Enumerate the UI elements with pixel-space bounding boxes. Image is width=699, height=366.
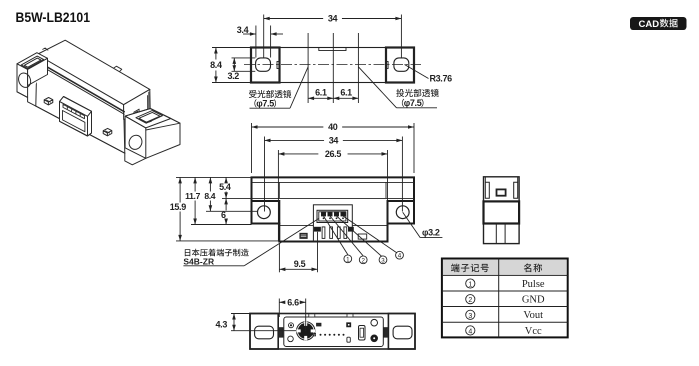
svg-text:2: 2 [361, 257, 365, 264]
svg-text:Vcc: Vcc [525, 326, 542, 337]
bottom tiny square [313, 333, 316, 336]
connector detail side slots [485, 177, 489, 198]
iso spine top face [37, 40, 150, 105]
iso bottom notch [125, 153, 146, 165]
iso end face seam [148, 92, 149, 111]
svg-text:CAD: CAD [639, 19, 660, 30]
dim 9.5 [278, 244, 280, 273]
callout 4 [396, 251, 404, 259]
front view outline [252, 177, 415, 241]
bottom right small square [347, 323, 351, 327]
svg-text:3.2: 3.2 [227, 71, 239, 81]
bottom view right lens [393, 326, 412, 339]
iso end face small rect [134, 109, 139, 116]
table row Vcc [466, 326, 475, 335]
svg-text:34: 34 [329, 136, 339, 146]
svg-text:8.4: 8.4 [204, 191, 215, 201]
isometric view [17, 40, 180, 165]
iso left block [17, 53, 48, 98]
svg-text:5.4: 5.4 [219, 182, 231, 192]
svg-text:15.9: 15.9 [170, 202, 186, 212]
dim 8.4 front [206, 210, 258, 212]
front view left ear box [252, 201, 280, 224]
iso connector pins [63, 104, 85, 118]
bottom right circle open [371, 319, 378, 326]
svg-text:4.3: 4.3 [216, 320, 228, 330]
table row GND [466, 295, 475, 304]
iso far top edge tab [114, 66, 122, 71]
front view right hole [396, 206, 409, 219]
iso small tab right [103, 128, 112, 135]
bottom right circle filled [371, 335, 378, 342]
svg-text:6: 6 [221, 210, 226, 220]
table header [451, 264, 489, 273]
connector detail center slot [497, 189, 506, 195]
dim 3.4 [255, 26, 257, 58]
svg-text:40: 40 [328, 122, 338, 132]
svg-text:34: 34 [328, 14, 338, 24]
front view block inner edges [278, 182, 280, 198]
connector front view [313, 205, 352, 242]
iso right block front circle [127, 133, 144, 151]
top view receiver lens [256, 58, 271, 71]
front view top parting line [252, 181, 415, 183]
dim 8.4 left [212, 47, 251, 49]
svg-text:Pulse: Pulse [522, 279, 545, 290]
dim 6.1 6.1 [308, 97, 333, 99]
iso connector recess [60, 97, 92, 137]
CAD data badge [630, 17, 687, 30]
svg-text:GND: GND [522, 295, 545, 306]
connector pin 2 [328, 212, 332, 216]
dim 34 top [263, 15, 265, 58]
bottom view left dark tab [278, 328, 283, 338]
svg-text:R3.76: R3.76 [430, 74, 453, 84]
svg-text:8.4: 8.4 [210, 60, 222, 70]
dim 26.5 [277, 150, 279, 241]
bottom small circle top [289, 323, 294, 328]
iso spine right end face [124, 89, 151, 119]
top view center notch [319, 48, 346, 51]
svg-text:S4B-ZR: S4B-ZR [183, 257, 214, 267]
bottom small circle lower [288, 336, 294, 342]
svg-text:Vout: Vout [523, 310, 543, 321]
connector pin 3 [334, 212, 338, 216]
bottom view left lens [255, 326, 274, 339]
callout leaders [324, 216, 348, 255]
svg-text:B5W-LB2101: B5W-LB2101 [16, 10, 91, 26]
connector detail outline [484, 177, 520, 244]
top view vertical centerlines [307, 33, 309, 103]
front small tab left [300, 233, 307, 238]
svg-text:4: 4 [398, 253, 402, 260]
top view emitter lens [394, 58, 409, 71]
top view body outline [251, 48, 414, 83]
svg-text:3: 3 [381, 257, 385, 264]
dim 40 [251, 123, 253, 173]
dim 34 front [264, 137, 266, 212]
label R3.76 [405, 65, 429, 79]
svg-text:3: 3 [468, 313, 472, 320]
table row Pulse [466, 279, 475, 288]
dim 5.4 [225, 177, 227, 182]
potentiometer [297, 322, 315, 340]
front view mid line 5.4 [252, 197, 415, 199]
front view lower parting line [279, 224, 313, 226]
top view horizontal centerline [244, 64, 421, 66]
svg-text:4: 4 [468, 328, 472, 335]
label JST connector [185, 249, 249, 257]
connector side rails [314, 227, 320, 231]
iso left block oval hole [17, 71, 33, 89]
iso right block square hole [136, 111, 163, 124]
svg-text:9.5: 9.5 [294, 259, 306, 269]
svg-text:6.1: 6.1 [315, 87, 327, 97]
connector detail bottom cells [495, 224, 497, 244]
connector detail mid body [484, 201, 520, 223]
iso small tab left [44, 98, 53, 105]
bottom view right block [388, 314, 415, 350]
bottom small rect [317, 323, 322, 326]
callout 3 [379, 256, 387, 264]
dim 6 [222, 197, 252, 199]
svg-text:φ3.2: φ3.2 [422, 227, 440, 237]
connector pin 4 [341, 212, 345, 216]
iso front bottom edge [36, 106, 125, 153]
table row Vout [466, 310, 475, 319]
bottom view inner panel [284, 317, 384, 347]
terminal table [442, 259, 568, 338]
iso bottom-left silhouette [17, 92, 36, 106]
svg-text:3.4: 3.4 [237, 25, 249, 35]
callout 2 [359, 256, 367, 264]
svg-text:26.5: 26.5 [325, 149, 341, 159]
label emitter lens [396, 89, 439, 97]
front view right ear box [388, 201, 415, 224]
callout 1 [344, 255, 352, 263]
svg-text:1: 1 [468, 282, 472, 289]
iso right block [125, 109, 180, 159]
dim 6.6 [278, 299, 280, 318]
front small rect right [358, 234, 367, 239]
svg-text:11.7: 11.7 [185, 191, 200, 201]
svg-text:6.6: 6.6 [287, 298, 299, 308]
dim 3.2 [232, 57, 256, 59]
dim 15.9 [176, 176, 252, 178]
iso left block top recess [21, 56, 43, 68]
top view right lens block [386, 48, 414, 83]
dim 11.7 [191, 224, 252, 226]
iso spine front face [36, 55, 125, 154]
front view left hole [258, 206, 271, 219]
svg-text:φ7.5: φ7.5 [404, 98, 422, 108]
bottom view left block [250, 314, 278, 350]
connector legs [322, 227, 325, 239]
svg-text:φ7.5: φ7.5 [256, 98, 274, 108]
top view lens block inner tabs [277, 62, 280, 69]
svg-text:2: 2 [468, 297, 472, 304]
bottom view outline [250, 314, 415, 350]
iso peak left step [43, 48, 48, 50]
bottom IC component [359, 326, 366, 341]
svg-text:6.1: 6.1 [340, 87, 352, 97]
svg-text:1: 1 [346, 256, 350, 263]
label phi 3.2 [403, 212, 421, 237]
bottom view top notches [309, 314, 315, 317]
iso spine band lines [37, 61, 124, 112]
bottom dots row [320, 334, 322, 336]
connector pin 1 [321, 212, 325, 216]
top view left lens block [251, 48, 280, 83]
bottom view right dark tab [384, 328, 389, 338]
label receiver lens [249, 90, 291, 98]
dim 4.3 [231, 313, 250, 315]
